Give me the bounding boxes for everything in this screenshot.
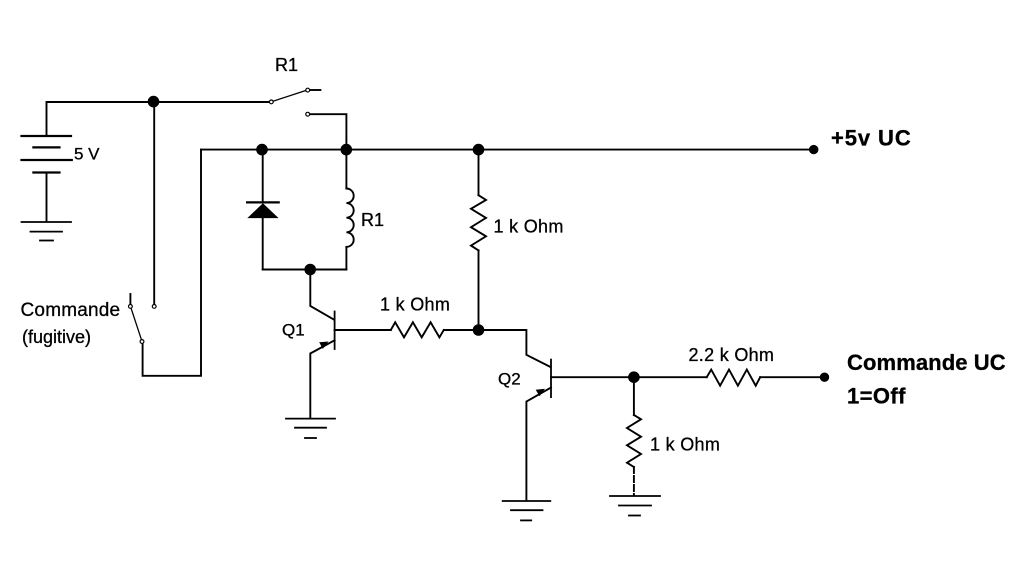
svg-text:R1: R1: [361, 210, 384, 230]
svg-text:1 k Ohm: 1 k Ohm: [650, 435, 720, 455]
svg-text:Q2: Q2: [498, 370, 521, 389]
svg-text:Commande UC: Commande UC: [847, 350, 1006, 375]
svg-text:1=Off: 1=Off: [847, 384, 906, 409]
svg-text:+5v UC: +5v UC: [831, 126, 912, 151]
svg-text:(fugitive): (fugitive): [22, 327, 91, 347]
svg-text:Q1: Q1: [282, 321, 305, 340]
svg-text:R1: R1: [275, 55, 298, 75]
svg-text:1 k Ohm: 1 k Ohm: [494, 217, 564, 237]
svg-text:2.2 k Ohm: 2.2 k Ohm: [689, 345, 775, 365]
svg-text:5 V: 5 V: [74, 145, 100, 164]
svg-text:Commande: Commande: [21, 300, 121, 321]
svg-text:1 k Ohm: 1 k Ohm: [380, 295, 450, 315]
